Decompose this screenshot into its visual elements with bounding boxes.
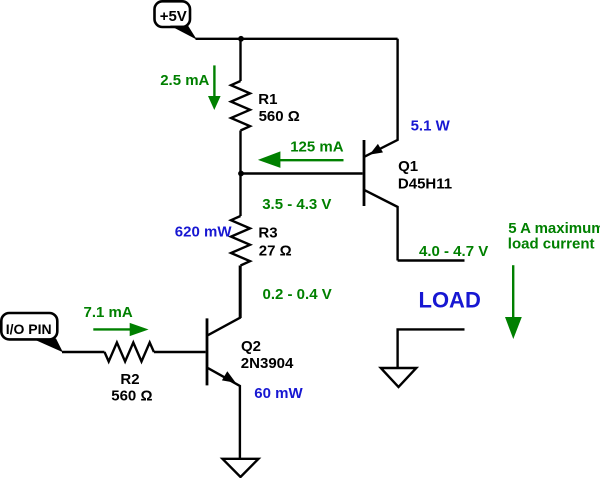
Q2 collector lead to R3 [208,266,240,336]
port flag I/O PIN [1,313,63,352]
Q2 emitter arrowhead [222,371,236,383]
transistor Q2 (NPN 2N3904) [207,266,294,459]
ground (load return) [381,368,417,387]
wire I/O pin to R2 left [62,351,105,353]
wire load bottom terminal to ground [398,329,465,368]
annotation current 125 mA with left arrow [258,139,344,168]
wire node to Q1 base [241,172,363,174]
svg-text:560 Ω: 560 Ω [111,388,152,405]
svg-text:R1: R1 [258,91,277,108]
svg-text:560 Ω: 560 Ω [259,108,300,125]
svg-text:2N3904: 2N3904 [241,355,294,372]
power flag +5V [155,1,197,39]
svg-text:D45H11: D45H11 [398,176,452,193]
svg-text:3.5 - 4.3 V: 3.5 - 4.3 V [262,196,331,213]
svg-text:2.5 mA: 2.5 mA [160,72,209,89]
junction node at Q1 base net [238,171,244,177]
ground (Q2 emitter) [223,459,259,477]
wire +5V rail [196,38,398,40]
svg-text:+5V: +5V [160,8,187,25]
svg-text:60 mW: 60 mW [254,385,303,402]
svg-text:4.0 - 4.7 V: 4.0 - 4.7 V [419,243,488,260]
Q1 emitter arrowhead [370,144,384,155]
svg-text:0.2 - 0.4 V: 0.2 - 0.4 V [263,286,332,303]
resistor R3 [231,216,250,266]
resistor R1 [231,81,250,131]
annotation current 2.5 mA with down arrow [160,65,220,110]
wire rail to R1 top [239,39,241,81]
transistor Q1 (PNP D45H11) [364,39,452,261]
Q2 emitter lead to ground [208,368,240,458]
annotation current 7.1 mA with right arrow [84,304,149,336]
wire node to R3 top [239,174,241,217]
wire R1 bottom to node [239,131,241,174]
svg-text:7.1 mA: 7.1 mA [84,304,133,321]
svg-text:Q1: Q1 [398,158,418,175]
svg-text:125 mA: 125 mA [290,139,344,156]
svg-text:5 A maximum: 5 A maximum [508,220,600,237]
Q1 collector lead [365,190,398,260]
Q2 base bar [206,318,209,385]
svg-text:620 mW: 620 mW [175,224,233,241]
annotation 5 A maximum load current with down arrow [505,220,600,339]
svg-text:Q2: Q2 [241,338,261,355]
resistor R2 [105,343,154,362]
svg-text:R3: R3 [258,225,277,242]
wire R3 bottom to Q2 collector [239,266,241,319]
junction node at +5V rail [238,36,244,42]
wire R2 right to Q2 base [154,351,206,353]
svg-text:I/O PIN: I/O PIN [6,321,52,337]
svg-text:LOAD: LOAD [419,287,481,312]
wire Q1 collector to load top terminal [398,259,465,261]
svg-text:load current: load current [508,236,595,253]
Q1 base bar [363,140,366,206]
Q1 emitter lead from +5V rail [365,39,398,157]
svg-text:R2: R2 [120,371,139,388]
svg-text:27 Ω: 27 Ω [259,243,292,260]
svg-text:5.1 W: 5.1 W [411,118,451,135]
